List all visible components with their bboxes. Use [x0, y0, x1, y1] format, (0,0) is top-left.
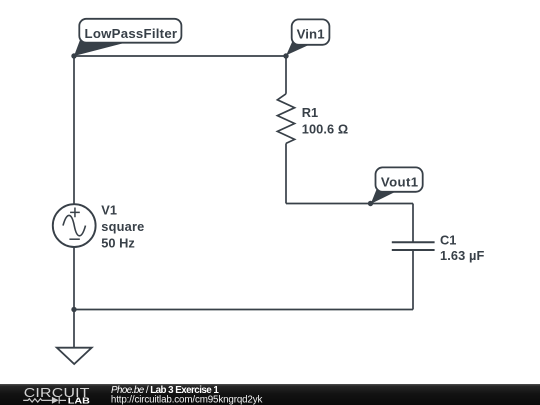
voltage source V1 [53, 204, 96, 247]
ground [57, 348, 92, 364]
svg-text:V1: V1 [101, 202, 117, 217]
svg-text:1.63 µF: 1.63 µF [440, 248, 484, 263]
node A dot (LowPassFilter) [71, 53, 76, 58]
wire: horizontal to Vout1 and capacitor branch [286, 203, 413, 205]
label Vin1 callout [286, 19, 329, 55]
svg-text:Vout1: Vout1 [381, 174, 418, 189]
capacitor C1 [392, 242, 435, 250]
label Vout1 callout [371, 167, 423, 204]
wire: Vin1 down to R1 top [285, 56, 287, 94]
svg-text:http://circuitlab.com/cm95kngr: http://circuitlab.com/cm95kngrqd2yk [111, 395, 263, 405]
wire: down to C1 top [412, 204, 414, 243]
wire left lower: V1 bottom to ground node [73, 247, 75, 310]
wire top: node A to Vin1 [74, 55, 286, 57]
node ground dot [71, 307, 76, 312]
footer bar [0, 384, 540, 405]
svg-text:C1: C1 [440, 232, 456, 247]
wire: C1 bottom down [412, 250, 414, 310]
svg-text:Vin1: Vin1 [297, 27, 325, 42]
wire left upper: node A down to V1 top [73, 56, 75, 204]
node Vin1 dot [283, 53, 288, 58]
svg-text:LowPassFilter: LowPassFilter [85, 26, 178, 41]
wire bottom: back to ground node [74, 309, 413, 311]
svg-text:square: square [101, 219, 144, 234]
CircuitLab logo zigzag and diode [23, 397, 66, 404]
svg-text:100.6 Ω: 100.6 Ω [302, 122, 348, 137]
node Vout1 dot [368, 201, 373, 206]
label LowPassFilter callout [74, 19, 181, 56]
svg-text:50 Hz: 50 Hz [101, 235, 135, 250]
wire: R1 bottom down [285, 143, 287, 203]
svg-text:R1: R1 [302, 105, 318, 120]
svg-text:LAB: LAB [68, 396, 90, 405]
resistor R1 [277, 94, 294, 144]
wire: node to ground symbol [73, 310, 75, 348]
